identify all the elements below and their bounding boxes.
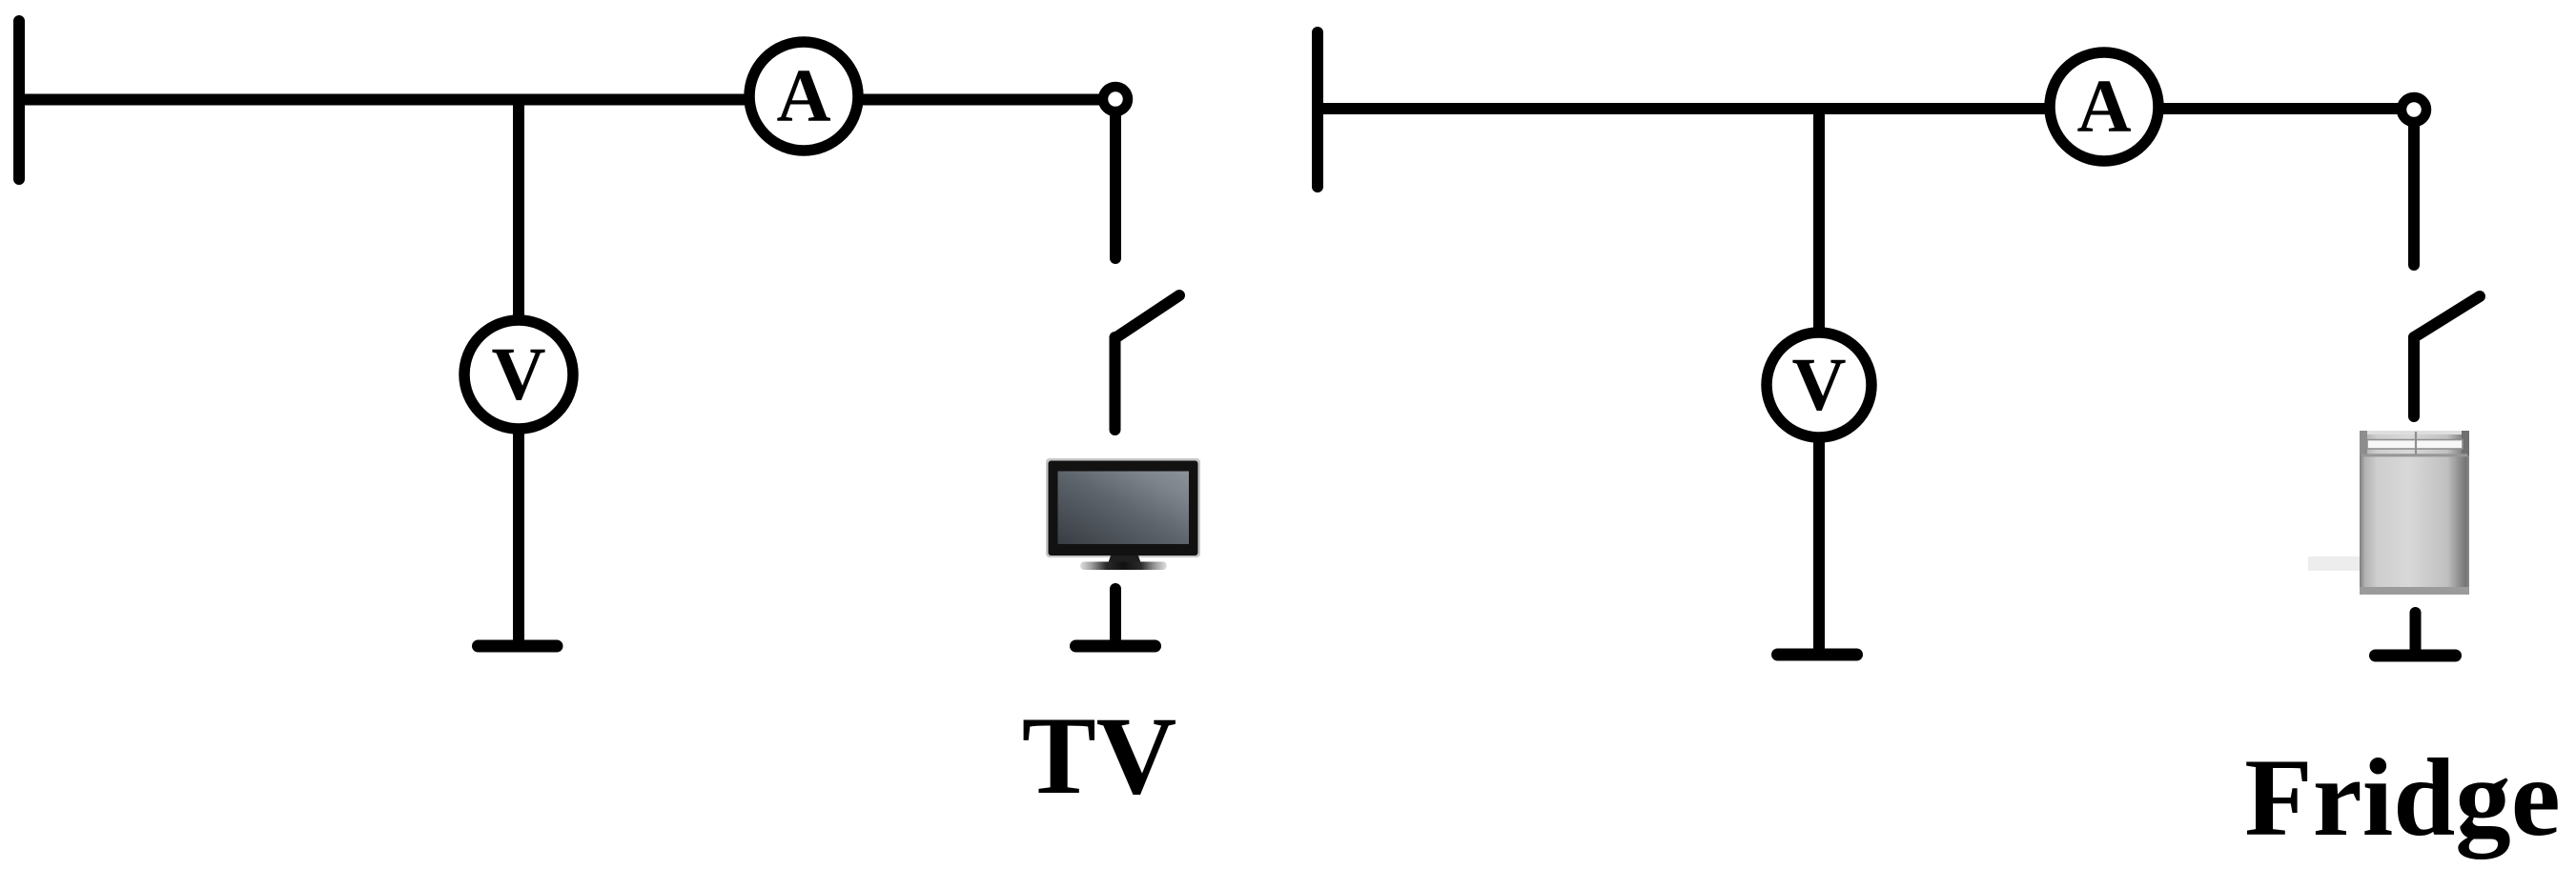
voltmeter V1 circle <box>464 320 573 429</box>
fridge ground bar <box>2376 650 2456 662</box>
TV ground bar <box>1076 640 1155 653</box>
svg-text:TV: TV <box>1022 695 1177 818</box>
switch S2 pivot node <box>2402 97 2426 122</box>
switch S2 upper wire <box>2408 110 2420 265</box>
wire voltmeter branch (left) <box>513 100 524 647</box>
svg-text:Fridge: Fridge <box>2244 737 2560 859</box>
TV icon <box>1046 458 1200 570</box>
voltmeter V2 circle <box>1767 333 1871 437</box>
svg-text:V: V <box>491 333 545 416</box>
switch S1 pivot node <box>1103 87 1128 111</box>
svg-text:A: A <box>776 55 830 138</box>
fridge ground wire <box>2410 613 2422 656</box>
switch S1 upper wire <box>1110 99 1121 258</box>
svg-text:A: A <box>2076 66 2131 149</box>
bus wire (right) <box>1318 103 2414 114</box>
switch S1 blade <box>1116 295 1179 337</box>
ammeter A2 circle <box>2050 52 2158 161</box>
switch S2 lower wire <box>2408 337 2420 416</box>
bus wire (left) <box>19 94 1115 106</box>
bus terminal tick (left) <box>13 21 25 179</box>
switch S2 blade <box>2414 296 2480 337</box>
svg-text:V: V <box>1791 344 1846 427</box>
right circuit <box>1318 32 2561 859</box>
fridge icon <box>2308 431 2469 595</box>
wire voltmeter branch (right) <box>1813 109 1825 655</box>
bus terminal tick (right) <box>1312 32 1323 187</box>
left circuit <box>19 21 1200 818</box>
ammeter A1 circle <box>749 42 858 151</box>
TV ground wire <box>1110 589 1121 646</box>
ground bar under voltmeter (right) <box>1778 649 1857 661</box>
switch S1 lower wire <box>1110 337 1121 430</box>
ground bar under voltmeter (left) <box>479 640 558 653</box>
